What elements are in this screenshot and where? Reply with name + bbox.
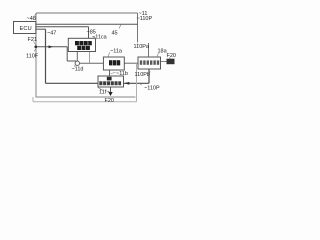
- svg-text:11f~: 11f~: [99, 90, 109, 96]
- svg-text:110Pa: 110Pa: [134, 44, 150, 50]
- svg-text:F21: F21: [28, 37, 37, 43]
- svg-text:~47: ~47: [47, 31, 56, 37]
- svg-text:F20: F20: [105, 98, 114, 104]
- svg-text:~110P: ~110P: [137, 16, 153, 22]
- svg-text:110Pb: 110Pb: [135, 72, 151, 78]
- svg-text:F20: F20: [167, 53, 176, 59]
- svg-text:~11b: ~11b: [116, 71, 128, 77]
- svg-text:ECU: ECU: [20, 26, 32, 32]
- svg-text:45: 45: [112, 31, 118, 37]
- svg-text:~11d: ~11d: [72, 67, 84, 73]
- svg-text:~110P: ~110P: [144, 86, 160, 92]
- svg-text:~48: ~48: [27, 16, 36, 22]
- svg-text:110F: 110F: [26, 54, 39, 60]
- svg-text:~11a: ~11a: [110, 49, 123, 55]
